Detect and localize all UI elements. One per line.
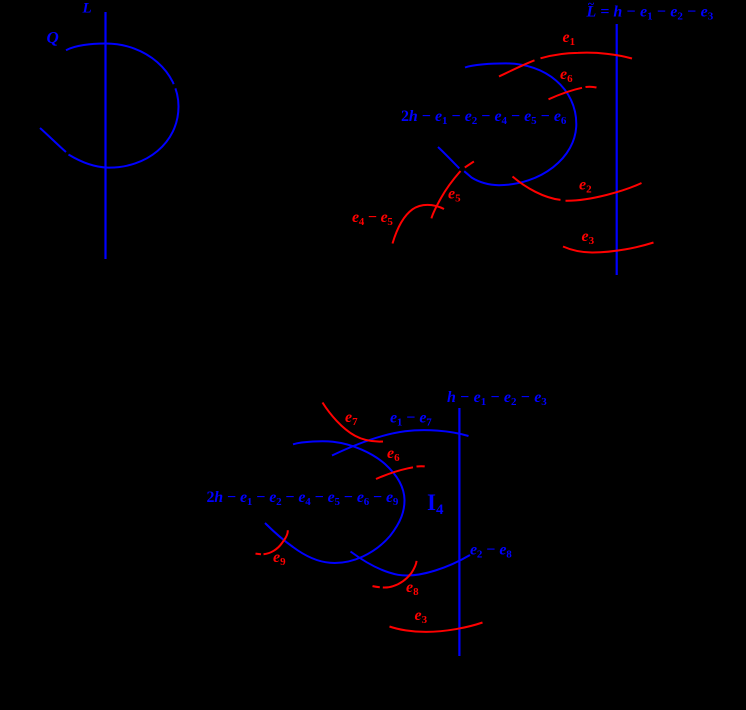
arc e1 (figure 2) — [499, 53, 632, 77]
svg-text:2h − e1 − e2 − e4 − e5 − e6: 2h − e1 − e2 − e4 − e5 − e6 — [401, 108, 567, 127]
arc e1-e7 (figure 3, blue) — [332, 430, 469, 455]
line Ltilde (figure 2) — [616, 24, 618, 275]
conic 2h-e1-e2-e4-e5-e6-e9 (figure 3 ellipse) — [265, 441, 405, 563]
svg-text:Q: Q — [47, 28, 59, 47]
svg-text:~: ~ — [588, 0, 595, 11]
arc e6 (figure 3, red) — [376, 466, 425, 479]
conic 2h-e1-e2-e4-e5-e6 (figure 2 ellipse) — [438, 63, 576, 185]
svg-text:e2 − e8: e2 − e8 — [470, 542, 512, 561]
line h-e1-e2-e3 (figure 3) — [458, 408, 460, 656]
conic Q — [40, 128, 66, 152]
arc e2 (figure 2) — [513, 177, 642, 201]
arc e3 (figure 3, red) — [390, 623, 483, 632]
arc e2-e8 (figure 3, blue) — [351, 552, 471, 576]
arc e4-e5 (figure 2) — [393, 205, 445, 244]
gap in conic Q stroke — [170, 85, 177, 88]
svg-text:h − e1 − e2 − e3: h − e1 − e2 − e3 — [447, 389, 547, 408]
arc e8 (figure 3, red) — [373, 561, 417, 588]
svg-text:e4 − e5: e4 − e5 — [352, 209, 393, 228]
arc e6 (figure 2) — [549, 87, 597, 100]
arc e7 (figure 3, red) — [323, 403, 384, 442]
arc e9 (figure 3, red) — [256, 530, 288, 554]
svg-text:L: L — [82, 0, 92, 16]
svg-text:2h − e1 − e2 − e4 − e5 − e6 −: 2h − e1 − e2 − e4 − e5 − e6 − e9 — [207, 489, 399, 508]
arc e5 (figure 2) — [431, 161, 474, 218]
svg-text:e1 − e7: e1 − e7 — [390, 410, 432, 429]
arc e3 (figure 2) — [563, 243, 654, 253]
line L (figure 1) — [104, 12, 106, 259]
